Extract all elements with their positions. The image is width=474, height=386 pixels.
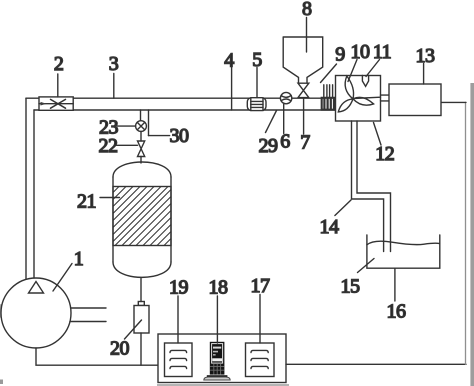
filter 20 (small box with nub)	[134, 302, 149, 334]
label 15	[341, 259, 375, 298]
valve 7 (bowtie under hopper)	[298, 83, 309, 97]
svg-text:19: 19	[169, 277, 189, 299]
flow meter 6 (circle on pipe)	[280, 92, 291, 103]
heater 5 (element in pipe)	[247, 98, 266, 111]
wire: fan box to motor 13 connector	[381, 94, 390, 96]
label 7	[300, 98, 310, 154]
scan artifact left gray blob	[0, 304, 2, 318]
label 13	[416, 45, 436, 84]
svg-text:9: 9	[335, 44, 345, 66]
svg-text:21: 21	[77, 191, 96, 213]
fan blade lower-left	[338, 99, 353, 112]
computer 18	[204, 342, 230, 380]
label 10	[348, 41, 370, 82]
recorder 19	[165, 343, 193, 377]
label 14	[320, 200, 352, 238]
label 8	[302, 0, 312, 52]
svg-text:2: 2	[54, 53, 64, 75]
wire: left vertical pipe inner line	[33, 110, 35, 278]
svg-text:7: 7	[300, 132, 310, 154]
svg-text:18: 18	[209, 277, 229, 299]
label 11	[366, 41, 391, 77]
valve 23 (circle with X)	[136, 121, 147, 132]
label 23	[99, 117, 136, 139]
svg-text:22: 22	[99, 135, 118, 157]
label 20	[110, 320, 142, 360]
wire: control box to right riser	[286, 363, 466, 365]
scan artifact right gray band	[470, 83, 474, 386]
motor 13	[389, 84, 441, 116]
label 18	[209, 277, 229, 344]
hopper 8	[283, 37, 323, 83]
label 1	[53, 248, 83, 291]
label 21	[77, 191, 120, 213]
label 6	[280, 104, 290, 152]
pump 1 (circle)	[1, 278, 106, 348]
inlet notch 11	[362, 76, 368, 87]
svg-text:20: 20	[110, 338, 130, 360]
svg-text:10: 10	[351, 41, 371, 63]
control box (cabinet 17/18/19)	[158, 334, 286, 383]
label 2	[54, 53, 64, 97]
valve 2 (box with X on pipe)	[39, 97, 73, 110]
label 12	[374, 123, 395, 166]
svg-text:17: 17	[251, 275, 271, 297]
wire: pipe drop for node 30	[148, 110, 150, 136]
fan blade up	[345, 76, 353, 99]
tank 16 (water tank)	[367, 235, 440, 268]
label 5	[252, 49, 262, 98]
wire: drop from pipe to valve 23	[140, 110, 142, 121]
wire: top horizontal pipe bottom line	[34, 109, 336, 111]
wire: valve 22 to tank 21 top	[140, 157, 142, 164]
svg-text:4: 4	[224, 50, 234, 72]
valve 22 (bowtie valve)	[138, 141, 145, 157]
wire: left vertical pipe (pump to valve 2), outer line	[25, 98, 27, 279]
water 15 (wave line)	[367, 241, 440, 245]
svg-text:12: 12	[375, 143, 394, 165]
svg-text:15: 15	[341, 276, 361, 298]
label 30	[149, 125, 190, 147]
fan blade right	[353, 97, 374, 105]
scan noise strip under control box	[157, 384, 289, 386]
damper 9 (comb + hatched block)	[322, 85, 336, 110]
label 9	[321, 44, 346, 83]
label 22	[99, 135, 138, 157]
recorder 17	[246, 343, 275, 377]
label 4	[224, 50, 234, 111]
label 19	[169, 277, 189, 344]
fan box 10/11/12	[336, 76, 381, 122]
fan shaft	[353, 97, 381, 98]
svg-text:8: 8	[302, 0, 312, 20]
svg-text:1: 1	[74, 248, 84, 270]
label 16	[387, 268, 407, 322]
tank 21 (vessel with hatched packing)	[113, 162, 171, 277]
svg-text:16: 16	[387, 301, 407, 323]
label 3	[109, 53, 119, 98]
label 29 (pipe section)	[259, 111, 279, 158]
wire: tank 21 bottom to filter 20	[140, 279, 142, 302]
svg-text:11: 11	[373, 41, 391, 63]
scan artifact bottom-left speck	[0, 380, 3, 385]
wire: pump bottom to control box	[36, 348, 158, 365]
wire: filter 20 down to bottom run	[140, 333, 142, 365]
svg-text:14: 14	[320, 216, 340, 238]
svg-text:30: 30	[170, 125, 190, 147]
svg-text:3: 3	[109, 53, 119, 75]
label 17	[251, 275, 271, 343]
svg-text:29: 29	[259, 135, 279, 157]
wire: top horizontal pipe 3/4 top line	[26, 97, 336, 99]
svg-text:13: 13	[416, 45, 436, 67]
pipe 14 (down from fan box, jog right, into tank)	[352, 121, 384, 252]
wire: valve 23 to valve 22	[140, 132, 142, 142]
svg-text:6: 6	[280, 131, 290, 153]
